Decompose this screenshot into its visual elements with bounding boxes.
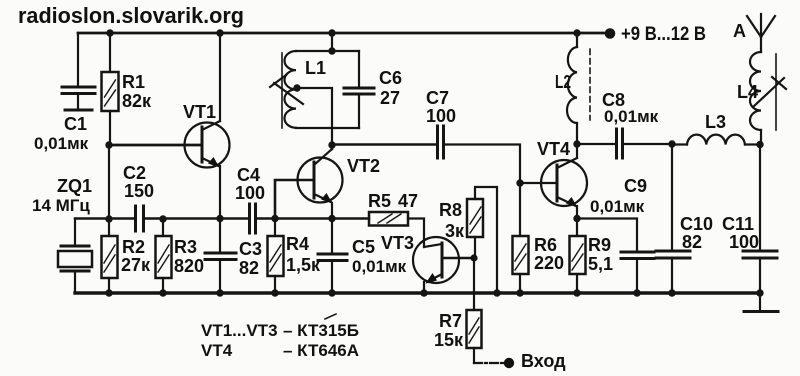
antenna A — [733, 14, 775, 52]
capacitor C4 — [235, 165, 265, 233]
node bus C10 — [668, 289, 675, 296]
wire L1 feed — [331, 33, 333, 51]
adjustment arrow L1 — [270, 75, 303, 104]
resistor R1 — [102, 33, 153, 145]
svg-text:C5: C5 — [352, 237, 375, 257]
node bus C3 — [216, 289, 223, 296]
capacitor C1 — [34, 87, 95, 153]
transistor VT3 — [381, 233, 459, 284]
node base VT1 — [105, 141, 112, 148]
crystal ZQ1 — [32, 176, 92, 293]
svg-text:R8: R8 — [439, 200, 462, 220]
svg-text:VT1: VT1 — [183, 102, 216, 122]
node L1 top — [328, 47, 335, 54]
node bus C9 — [633, 289, 640, 296]
svg-text:C2: C2 — [123, 163, 146, 183]
svg-text:R1: R1 — [122, 72, 145, 92]
node VT2 base / R4 / C4 — [271, 215, 278, 222]
node VT2 emitter / C5 / R5 — [328, 215, 335, 222]
wire bottom ground bus — [75, 291, 760, 294]
wire VT2 collector — [331, 145, 333, 149]
node bus R2 — [105, 289, 112, 296]
svg-text:C10: C10 — [680, 214, 713, 234]
resistor R9 — [570, 219, 614, 294]
node bus R8 return — [493, 289, 500, 296]
node VT3 base / R8 / R7 — [470, 254, 477, 261]
wire VT2 base — [275, 180, 314, 219]
svg-text:27к: 27к — [121, 255, 151, 275]
adjustment arrow L4 — [753, 77, 786, 107]
wire lower horizontal rail y218 — [75, 217, 369, 219]
svg-text:14 МГц: 14 МГц — [32, 196, 90, 215]
svg-text:L1: L1 — [305, 58, 326, 78]
ground symbol right — [744, 293, 778, 312]
svg-text:R3: R3 — [174, 237, 197, 257]
svg-text:L2: L2 — [555, 72, 571, 92]
capacitor C9 — [577, 176, 654, 293]
node VT1 collector on bus — [216, 29, 223, 36]
svg-text:VT4: VT4 — [201, 341, 233, 360]
svg-text:82: 82 — [682, 232, 702, 252]
svg-text:C7: C7 — [426, 88, 449, 108]
svg-text:VT4: VT4 — [537, 139, 570, 159]
node R1 R2 rail — [105, 215, 112, 222]
resistor R3 — [156, 219, 205, 293]
node VT4 emitter / R9 / C9 — [573, 215, 580, 222]
svg-text:27: 27 — [380, 88, 400, 108]
node bus VT3 emitter — [420, 289, 427, 296]
inductor L2 — [555, 33, 577, 144]
node L3 / L4 / C11 — [756, 141, 763, 148]
node VT4 collector / L2 / C8 — [573, 140, 580, 147]
svg-text:0,01мк: 0,01мк — [352, 257, 407, 276]
svg-text:R5: R5 — [368, 191, 391, 211]
capacitor C3 — [205, 219, 262, 294]
node bus R4 — [271, 289, 278, 296]
node L2 top on bus — [573, 29, 580, 36]
svg-text:82: 82 — [239, 258, 259, 278]
capacitor C8 — [577, 90, 672, 158]
svg-text:ZQ1: ZQ1 — [57, 176, 92, 196]
wire C1 top lead — [77, 33, 79, 87]
wire VT2 emitter — [331, 203, 333, 219]
wire VT1 collector — [219, 33, 221, 121]
svg-text:15к: 15к — [434, 330, 464, 350]
resistor R6 — [513, 183, 565, 293]
capacitor C10 — [656, 144, 713, 293]
wire VT3 base — [442, 257, 474, 260]
node bus C11 ground — [756, 289, 763, 296]
node VT2 collector — [328, 141, 335, 148]
svg-text:C11: C11 — [722, 214, 754, 234]
resistor R4 — [268, 219, 322, 294]
svg-text:R6: R6 — [534, 235, 557, 255]
svg-text:A: A — [733, 21, 746, 41]
svg-text:47: 47 — [398, 191, 418, 211]
svg-text:+9 В...12 В: +9 В...12 В — [621, 24, 706, 45]
svg-text:VT2: VT2 — [347, 156, 380, 176]
svg-text:– КТ315Б: – КТ315Б — [283, 321, 359, 340]
wire base-node vertical — [108, 145, 110, 219]
wire L1 tap to collector node — [297, 88, 332, 145]
inductor L3 — [672, 112, 760, 145]
svg-text:82к: 82к — [122, 91, 152, 111]
transistor VT1 — [183, 102, 230, 168]
svg-text:150: 150 — [124, 181, 154, 201]
svg-text:820: 820 — [174, 256, 204, 276]
node bus R6 — [516, 289, 523, 296]
node VT1 emitter — [216, 215, 223, 222]
wire collector node to C7 — [332, 143, 435, 145]
svg-text:– КТ646А: – КТ646А — [283, 341, 359, 360]
svg-text:0,01мк: 0,01мк — [34, 134, 89, 153]
wire R5 to VT3 collector — [408, 219, 424, 248]
capacitor C7 — [426, 88, 456, 158]
resistor R5 — [368, 191, 418, 226]
wire VT1 base — [109, 144, 202, 147]
node bus R9 — [573, 289, 580, 296]
capacitor C6 — [344, 68, 402, 108]
svg-text:R7: R7 — [439, 311, 462, 331]
wire ZQ1 top lead — [74, 219, 76, 247]
terminal Вход — [504, 351, 566, 371]
core line L2 dashed — [589, 49, 591, 120]
wire VT4 collector — [576, 144, 578, 158]
inductor L4 — [737, 52, 761, 145]
svg-text:L3: L3 — [705, 112, 726, 132]
svg-text:R4: R4 — [286, 234, 309, 254]
svg-text:1,5к: 1,5к — [286, 255, 321, 275]
node bus C5 — [328, 289, 335, 296]
svg-text:220: 220 — [534, 253, 564, 273]
node R3 top — [159, 215, 166, 222]
ground bar under C1 — [65, 109, 92, 112]
svg-text:VT1...VT3: VT1...VT3 — [201, 321, 278, 340]
svg-text:100: 100 — [426, 106, 456, 126]
node VT4 base / R6 — [516, 179, 523, 186]
svg-text:R9: R9 — [588, 235, 611, 255]
node C10 top — [668, 140, 675, 147]
svg-text:0,01мк: 0,01мк — [590, 197, 645, 216]
terminal +9V supply — [605, 24, 706, 45]
svg-text:0,01мк: 0,01мк — [604, 107, 659, 126]
transistor VT2 — [298, 149, 381, 204]
svg-text:radioslon.slovarik.org: radioslon.slovarik.org — [18, 3, 244, 28]
svg-text:C4: C4 — [237, 165, 260, 185]
capacitor C5 — [318, 219, 407, 294]
transistor VT4 — [537, 139, 587, 208]
node bus R3 — [159, 289, 166, 296]
note transistor types — [201, 314, 359, 360]
core line L4 — [775, 54, 777, 130]
svg-text:3к: 3к — [445, 221, 465, 241]
svg-text:100: 100 — [235, 183, 265, 203]
node L1 tap — [293, 84, 300, 91]
svg-text:L4: L4 — [737, 82, 758, 102]
svg-text:C6: C6 — [379, 68, 402, 88]
svg-text:VT3: VT3 — [381, 233, 414, 253]
capacitor C11 — [722, 145, 777, 294]
svg-text:C1: C1 — [64, 114, 87, 134]
resistor R8 — [439, 187, 497, 293]
svg-text:100: 100 — [729, 232, 759, 252]
svg-text:Вход: Вход — [521, 351, 566, 371]
svg-text:R2: R2 — [122, 237, 145, 257]
core line L1 — [281, 53, 283, 128]
resistor R2 — [102, 219, 152, 293]
node R1 on bus — [106, 29, 113, 36]
wire top supply bus — [78, 32, 611, 35]
svg-text:C9: C9 — [624, 176, 647, 196]
capacitor C2 — [123, 163, 154, 231]
inductor L1 tank loop — [285, 51, 360, 128]
resistor R7 — [434, 258, 482, 363]
node L1 feed on bus — [328, 29, 335, 36]
wire VT1 emitter — [219, 166, 221, 219]
wire VT3 emitter — [423, 282, 425, 293]
wire C7 to VT4 base — [445, 145, 557, 184]
svg-text:C3: C3 — [239, 239, 262, 259]
wire VT4 emitter — [576, 206, 578, 219]
wire input lead — [474, 362, 503, 364]
svg-text:5,1: 5,1 — [588, 254, 613, 274]
